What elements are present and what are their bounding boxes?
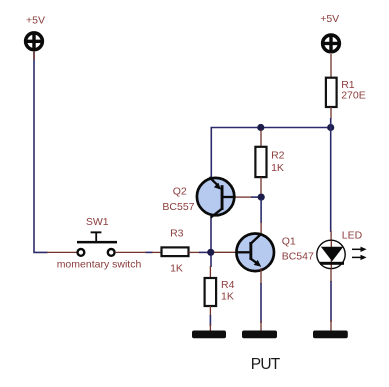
wire R1 bottom to top rail node (330, 107, 332, 128)
svg-text:1K: 1K (170, 263, 183, 275)
svg-text:+5V: +5V (320, 13, 339, 25)
wire R2 top pin (260, 130, 262, 148)
svg-text:Q2: Q2 (173, 185, 187, 197)
wire SW1 to R3 (116, 251, 162, 253)
svg-text:R4: R4 (221, 279, 235, 291)
ground (below R4) (192, 331, 226, 339)
svg-text:PUT: PUT (251, 356, 281, 373)
wire node A up to Q2 collector (210, 217, 212, 250)
node A junction dot (207, 249, 214, 256)
resistor R4 (205, 278, 217, 306)
+5V supply symbol (right) (323, 35, 340, 52)
svg-text:SW1: SW1 (86, 216, 109, 228)
wire node A right to Q1 base (pin) (214, 251, 237, 253)
svg-text:270E: 270E (341, 90, 366, 102)
wire node B down to Q1 collector (pin) (260, 199, 262, 234)
ground (below Q1) (242, 331, 277, 339)
LED light arrow 2 (352, 255, 367, 260)
wire Q1 emitter to ground (260, 268, 262, 331)
node B junction dot (258, 194, 265, 201)
node junction dot (R2 tap on top rail) (257, 124, 264, 131)
momentary switch SW1 (77, 231, 117, 255)
wire R2 bottom pin to node B (260, 177, 262, 194)
svg-text:1K: 1K (271, 162, 284, 174)
LED (317, 240, 345, 268)
svg-text:R2: R2 (271, 150, 285, 162)
svg-text:1K: 1K (221, 290, 234, 302)
transistor Q1 (NPN BC547) (236, 234, 274, 272)
svg-text:momentary switch: momentary switch (57, 259, 142, 271)
wire R4 to ground (209, 306, 211, 331)
top rail wire (+5V rail from above Q2 to R1 bottom) (211, 128, 330, 178)
svg-text:Q1: Q1 (282, 236, 296, 248)
wire from left +5V down and right to SW1 (34, 51, 77, 252)
resistor R1 (326, 78, 337, 107)
wire R3 to node A (189, 251, 209, 253)
ground (below LED) (313, 331, 348, 339)
wire Q2 base to node B (pin) (236, 196, 258, 198)
wire node A down to R4 (209, 256, 212, 279)
+5V supply symbol (left) (26, 33, 43, 50)
svg-text:+5V: +5V (26, 15, 45, 27)
LED light arrow 1 (352, 247, 367, 252)
resistor R2 (255, 147, 266, 177)
node junction dot (R1 / LED tap on top rail) (327, 124, 334, 131)
wire top rail node down to LED (330, 128, 332, 242)
transistor Q2 (PNP BC557) (197, 177, 236, 217)
wire +5V to R1 (pin) (330, 54, 332, 79)
svg-text:LED: LED (342, 230, 363, 242)
svg-text:BC547: BC547 (282, 251, 314, 263)
svg-text:R3: R3 (170, 228, 184, 240)
svg-text:BC557: BC557 (162, 201, 194, 213)
resistor R3 (162, 247, 189, 256)
wire LED to ground (330, 269, 332, 331)
